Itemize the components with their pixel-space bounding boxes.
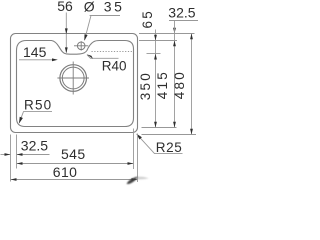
svg-text:415: 415 xyxy=(155,70,170,99)
dimension 610 line xyxy=(11,179,138,181)
drain crosshair xyxy=(57,77,89,79)
ext line D bowl bottom xyxy=(142,127,177,129)
svg-text:350: 350 xyxy=(138,71,153,100)
bottom ext line bowl right xyxy=(133,129,135,170)
dimension R40 overline and leader xyxy=(87,55,118,58)
dimension 32.5 top underline xyxy=(169,20,198,22)
drain inner circle xyxy=(62,67,84,89)
ext line C bowl hidden xyxy=(147,53,161,55)
tap hole crosshair xyxy=(74,45,88,47)
dimension 32.5 bottom line xyxy=(17,154,50,156)
ext line E outer bottom xyxy=(142,134,197,136)
svg-text:R25: R25 xyxy=(156,140,183,155)
svg-text:32.5: 32.5 xyxy=(21,138,48,154)
svg-text:R50: R50 xyxy=(24,98,52,113)
svg-text:56: 56 xyxy=(57,0,73,14)
bottom ext line outer left xyxy=(10,135,12,182)
dimension 480 vertical line xyxy=(191,34,193,135)
dimension 145 line xyxy=(19,59,53,61)
outer sink outline xyxy=(11,34,138,133)
drain outer circle xyxy=(60,65,87,92)
dimension 65/350 vertical line xyxy=(155,30,157,128)
dimension O35 leader xyxy=(85,16,91,40)
svg-text:145: 145 xyxy=(23,44,47,60)
dimension R25 underline and leader xyxy=(137,134,183,153)
bowl bottom hidden edge (dotted) xyxy=(92,51,134,53)
ext line B bowl top xyxy=(139,40,177,42)
dimension O35 underline xyxy=(90,15,120,17)
ext line A top edge xyxy=(139,33,195,35)
dimension 545 line xyxy=(17,163,134,165)
bowl outline with tap scoop xyxy=(17,41,134,127)
bottom ext line outer right xyxy=(137,134,139,183)
bottom ext line bowl left xyxy=(16,135,18,169)
tap hole circle xyxy=(77,42,85,50)
svg-text:Ø 35: Ø 35 xyxy=(84,0,125,14)
svg-text:545: 545 xyxy=(61,146,86,162)
svg-text:480: 480 xyxy=(172,70,187,99)
dimension 56 leader xyxy=(65,13,67,53)
svg-text:32.5: 32.5 xyxy=(168,5,195,21)
dimension 415 vertical line xyxy=(174,21,176,128)
svg-text:610: 610 xyxy=(53,164,78,180)
dimension 32.5 top leader xyxy=(173,28,176,34)
svg-text:R40: R40 xyxy=(102,58,127,73)
logo smudge xyxy=(127,177,149,184)
svg-text:65: 65 xyxy=(140,9,155,28)
dimension R50 underline and leader xyxy=(19,112,52,123)
